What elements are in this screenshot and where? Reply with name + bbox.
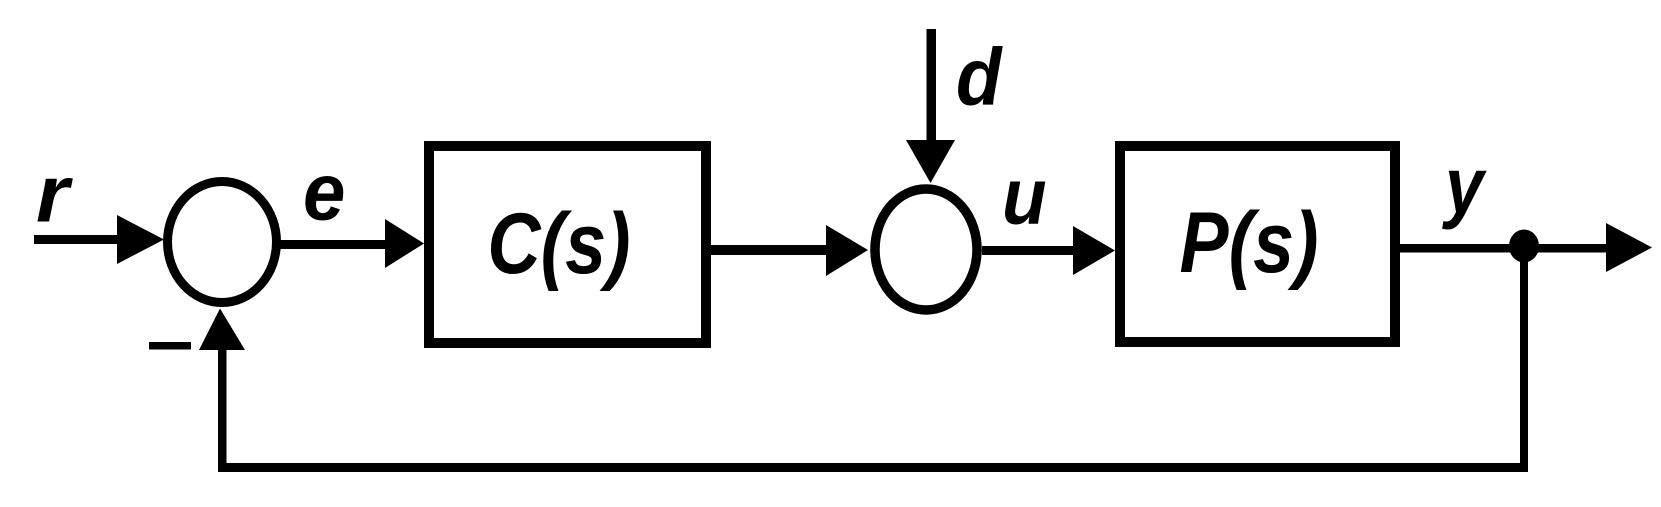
arrowhead output xyxy=(1606,223,1652,272)
wire u xyxy=(982,246,1078,255)
block P(s) xyxy=(1120,146,1395,342)
wire e xyxy=(277,240,389,249)
wire feedback left vertical xyxy=(218,345,227,472)
summing junction S1 xyxy=(168,182,277,303)
wire feedback right vertical xyxy=(1520,246,1528,472)
svg-text:y: y xyxy=(1442,141,1487,230)
block C(s) xyxy=(429,146,706,343)
wire y xyxy=(1400,244,1610,253)
svg-text:C(s): C(s) xyxy=(487,196,630,292)
svg-text:P(s): P(s) xyxy=(1180,195,1319,291)
summing junction S2 xyxy=(875,189,977,310)
arrowhead u into P(s) xyxy=(1073,226,1115,275)
wire C(s) to S2 xyxy=(711,245,830,255)
arrowhead d into S2 xyxy=(906,140,955,183)
arrowhead feedback into S1 xyxy=(199,309,245,351)
wire r input xyxy=(34,235,124,244)
svg-text:u: u xyxy=(1002,152,1047,241)
svg-text:e: e xyxy=(303,148,345,238)
arrowhead r into S1 xyxy=(117,215,164,264)
node (pickoff point) xyxy=(1509,230,1539,263)
svg-text:r: r xyxy=(36,150,74,240)
minus sign xyxy=(149,342,191,350)
svg-text:d: d xyxy=(956,33,1003,123)
arrowhead e into C(s) xyxy=(385,219,424,268)
wire feedback bottom horizontal xyxy=(218,463,1528,472)
arrowhead into S2 xyxy=(826,225,868,276)
wire d xyxy=(927,29,937,145)
